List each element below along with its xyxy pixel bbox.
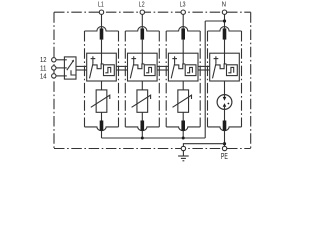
- contact stub 12: [64, 59, 66, 61]
- disconnector module 2 top (thermal): [141, 28, 145, 39]
- contact stub 14: [64, 75, 66, 77]
- ground symbol: [182, 151, 184, 156]
- spark gap F4 trigger dot: [228, 103, 230, 105]
- monitoring unit U3 box: [168, 53, 198, 81]
- wire monitoring to spark gap: [224, 81, 226, 95]
- module 2 (L2 varistor) box sides: [124, 31, 126, 127]
- spark gap F4 top electrode: [224, 95, 226, 97]
- disconnector module 4 bottom (thermal): [223, 121, 227, 131]
- node junction L2-bus: [141, 137, 144, 140]
- module 3 box bottom edge with bushing: [166, 127, 200, 131]
- wire module 4 bottom to PE node: [224, 131, 226, 147]
- svg-text:PE: PE: [221, 152, 228, 161]
- terminal PE: [222, 146, 226, 150]
- module 4 box top edge with bushing: [208, 27, 242, 31]
- contact blade with arrow: [67, 61, 73, 70]
- terminal N: [222, 10, 226, 14]
- coupling linkage contact box to module 1: [76, 65, 87, 67]
- wire module 2 to monitoring box: [141, 40, 143, 64]
- disconnector module 3 bottom (thermal): [181, 121, 185, 131]
- terminal 11: [52, 66, 56, 70]
- remote signalling changeover contact box: [64, 57, 76, 79]
- monitoring unit U1 control step line: [93, 64, 104, 69]
- enclosure boundary left: [53, 12, 55, 148]
- enclosure boundary bottom: [54, 148, 251, 150]
- wire terminal drop module 4: [224, 14, 226, 28]
- wire PE node to earth terminal: [183, 144, 224, 147]
- wire terminal drop module 2: [141, 14, 143, 28]
- monitoring unit U2 pulse device box: [144, 65, 155, 76]
- varistor MOV1 diagonal: [91, 95, 110, 107]
- monitoring unit U4 thermal trip tick: [215, 56, 217, 64]
- svg-text:L1: L1: [98, 0, 104, 9]
- module 2 box bottom edge with bushing: [125, 127, 159, 131]
- wire module 4 to monitoring box: [224, 40, 226, 64]
- varistor MOV1: [96, 90, 107, 112]
- enclosure boundary right: [250, 12, 252, 148]
- svg-text:L3: L3: [180, 0, 186, 9]
- contact stub 11: [64, 67, 66, 69]
- module 4 (N-PE spark gap) box sides: [207, 31, 209, 127]
- monitoring unit U1 box: [87, 53, 117, 81]
- terminal L1: [99, 10, 103, 14]
- wire N link to junction: [205, 20, 224, 22]
- terminal L2: [140, 10, 144, 14]
- terminal 12: [52, 58, 56, 62]
- wire varistor to bottom disconnector module 1: [101, 112, 103, 120]
- terminal 14: [52, 74, 56, 78]
- wire module 1 to monitoring box: [101, 40, 103, 64]
- disconnector module 4 top (thermal): [223, 28, 227, 39]
- disconnector module 3 top (thermal): [181, 28, 185, 39]
- contact 14 angle: [71, 70, 76, 75]
- wire N riser: [204, 21, 206, 138]
- coupling linkage module 1 to module 2: [116, 65, 127, 67]
- disconnector module 1 top (thermal): [100, 28, 104, 39]
- disconnector module 1 bottom (thermal): [100, 121, 104, 131]
- svg-text:N: N: [222, 0, 226, 9]
- wire monitoring to varistor module 2: [141, 81, 143, 90]
- node junction L3-bus: [182, 137, 185, 140]
- terminal L3: [181, 10, 185, 14]
- monitoring unit U2 control step line: [134, 64, 145, 69]
- monitoring unit U4 disconnect blade: [213, 64, 216, 79]
- monitoring unit U3 control step line: [175, 64, 186, 69]
- monitoring unit U3 pulse device box: [185, 65, 196, 76]
- wire module 2 bottom to bus: [141, 131, 143, 138]
- wire module 3 to monitoring box: [182, 40, 184, 64]
- module 3 box top edge with bushing: [166, 27, 200, 31]
- varistor MOV2: [137, 90, 148, 112]
- monitoring unit U4 pulse glyph: [228, 67, 233, 72]
- monitoring unit U1 thermal trip tick: [92, 56, 94, 64]
- monitoring unit U4 control step line: [216, 64, 227, 69]
- monitoring unit U2 disconnect blade: [130, 64, 133, 79]
- module 1 (L1 varistor) box sides: [84, 31, 86, 127]
- wire varistor to bottom disconnector module 3: [182, 112, 184, 120]
- monitoring unit U2 pulse glyph: [146, 67, 151, 72]
- terminal earth: [181, 146, 185, 150]
- svg-text:14: 14: [40, 71, 47, 80]
- wire terminal 14 to contact box: [56, 75, 64, 77]
- wire spark gap to bottom disconnector: [224, 109, 226, 120]
- varistor MOV3: [178, 90, 189, 112]
- module 3 (L3 varistor) box sides: [165, 31, 167, 127]
- monitoring unit U1 pulse device box: [104, 65, 115, 76]
- wire terminal drop module 1: [101, 14, 103, 28]
- monitoring unit U4 pulse device box: [227, 65, 238, 76]
- wire module 3 bottom to bus: [182, 131, 184, 138]
- wire terminal drop module 3: [182, 14, 184, 28]
- coupling linkage module 2 to module 3: [157, 65, 168, 67]
- module 4 box bottom edge with bushing: [208, 127, 242, 131]
- monitoring unit U2 box: [128, 53, 158, 81]
- monitoring unit U1 disconnect blade: [90, 64, 93, 79]
- wire terminal 12 to contact box: [56, 59, 64, 61]
- module 2 box top edge with bushing: [125, 27, 159, 31]
- wire monitoring to varistor module 1: [101, 81, 103, 90]
- wire varistor to bottom disconnector module 2: [141, 112, 143, 120]
- module 1 box bottom edge with bushing: [85, 127, 119, 131]
- monitoring unit U1 pulse glyph: [105, 67, 110, 72]
- node junction spark gap / PE: [223, 142, 226, 145]
- spark gap F4 (triggered N-PE gap): [217, 95, 232, 110]
- monitoring unit U3 pulse glyph: [187, 67, 192, 72]
- svg-text:L2: L2: [139, 0, 145, 9]
- monitoring unit U3 disconnect blade: [171, 64, 174, 79]
- monitoring unit U4 box: [210, 53, 240, 81]
- monitoring unit U3 thermal trip tick: [174, 56, 176, 64]
- coupling linkage module 3 to module 4: [198, 65, 210, 67]
- disconnector module 2 bottom (thermal): [141, 121, 145, 131]
- node N junction: [223, 19, 226, 22]
- wire terminal 11 to contact box: [56, 67, 64, 69]
- wire bottom bus modules 1-3 to riser: [102, 137, 206, 139]
- varistor MOV2 diagonal: [132, 95, 151, 107]
- module 1 box top edge with bushing: [85, 27, 119, 31]
- wire monitoring to varistor module 3: [182, 81, 184, 90]
- wire module 1 bottom to bus: [101, 131, 103, 138]
- enclosure boundary top: [54, 11, 251, 13]
- monitoring unit U2 thermal trip tick: [133, 56, 135, 64]
- spark gap F4 bottom electrode: [224, 107, 226, 110]
- varistor MOV3 diagonal: [173, 95, 192, 107]
